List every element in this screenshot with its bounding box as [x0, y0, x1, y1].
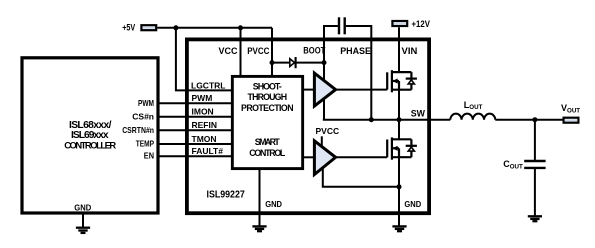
- svg-text:SHOOT-: SHOOT-: [253, 81, 282, 91]
- svg-text:THROUGH: THROUGH: [248, 92, 288, 102]
- svg-text:PVCC: PVCC: [316, 126, 340, 136]
- svg-text:IMON: IMON: [192, 107, 214, 117]
- svg-text:SMART: SMART: [255, 137, 281, 147]
- svg-text:GND: GND: [74, 202, 91, 212]
- svg-text:CONTROLLER: CONTROLLER: [64, 139, 116, 150]
- svg-text:VCC: VCC: [218, 46, 238, 56]
- svg-text:+5V: +5V: [122, 22, 135, 32]
- svg-text:PWM: PWM: [192, 93, 213, 103]
- svg-text:PROTECTION: PROTECTION: [241, 103, 294, 113]
- svg-text:VIN: VIN: [402, 46, 418, 56]
- svg-text:BOOT: BOOT: [303, 46, 325, 56]
- svg-text:TEMP: TEMP: [136, 139, 155, 149]
- svg-text:PWM: PWM: [138, 98, 154, 108]
- svg-text:GND: GND: [265, 199, 282, 209]
- svg-text:PHASE: PHASE: [340, 46, 371, 56]
- svg-text:CONTROL: CONTROL: [249, 148, 286, 158]
- svg-text:CSRTN#n: CSRTN#n: [122, 125, 154, 135]
- svg-text:+12V: +12V: [412, 19, 430, 29]
- svg-text:TMON: TMON: [192, 134, 217, 144]
- svg-text:REFIN: REFIN: [192, 120, 218, 130]
- svg-text:ISL99227: ISL99227: [207, 190, 245, 201]
- svg-text:LGCTRL: LGCTRL: [191, 80, 225, 90]
- svg-text:GND: GND: [404, 199, 421, 209]
- svg-text:SW: SW: [411, 109, 426, 119]
- svg-text:FAULT#: FAULT#: [192, 146, 224, 156]
- svg-text:CS#n: CS#n: [132, 111, 154, 121]
- svg-text:PVCC: PVCC: [247, 46, 270, 56]
- svg-text:EN: EN: [144, 151, 154, 161]
